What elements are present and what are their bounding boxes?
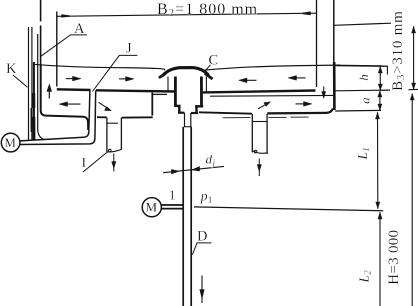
B3/H boundary tick bbox=[409, 88, 418, 90]
B2 right arrow (inward pointing left) bbox=[303, 12, 311, 14]
riser pipe left wall bbox=[20, 90, 90, 140]
wall smudge bbox=[32, 93, 35, 108]
J underline and leader bbox=[93, 55, 138, 91]
down arrow in pipe bottom bbox=[200, 276, 205, 304]
B3 dimension line bbox=[413, 26, 415, 89]
svg-text:M: M bbox=[4, 135, 16, 150]
tank outer left wall bbox=[33, 62, 35, 140]
flow arrow left far right channel bbox=[288, 76, 306, 81]
svg-text:1: 1 bbox=[208, 196, 213, 206]
joint tick bbox=[184, 126, 191, 128]
water surface right bbox=[203, 65, 340, 70]
svg-text:D: D bbox=[197, 229, 207, 245]
right stub open end bbox=[252, 151, 267, 154]
riser pipe right wall bbox=[20, 90, 96, 144]
left stub pipe right wall bbox=[120, 118, 122, 150]
lower water line right bbox=[210, 94, 333, 97]
flow arrow left right-of-dome bbox=[239, 78, 257, 83]
flow arrow right upper-left vessel bbox=[66, 76, 81, 81]
standpipe K right wall bbox=[31, 27, 33, 140]
svg-text:d: d bbox=[206, 152, 213, 167]
B2 right extension line bbox=[316, 0, 318, 87]
measuring nipple to pump M2 upper bbox=[161, 204, 183, 206]
left stub end curl bbox=[109, 149, 112, 152]
svg-text:K: K bbox=[6, 61, 17, 77]
h arrows bbox=[378, 67, 382, 73]
wall smudge lower bbox=[33, 117, 36, 140]
dome right tip flick bbox=[205, 73, 213, 79]
drain cup right wall bbox=[200, 77, 203, 107]
B2 left arrow (inward pointing right) bbox=[62, 15, 70, 17]
B3 top reference line bbox=[335, 23, 392, 25]
pipe A right wall lower part bbox=[40, 25, 42, 64]
down arrow at channel end bbox=[322, 87, 326, 99]
lower channel bottom left bbox=[97, 116, 107, 118]
L1 arrows bbox=[375, 113, 379, 120]
neck left wall bbox=[178, 106, 180, 113]
a arrows bbox=[378, 91, 382, 97]
measuring nipple lower bbox=[161, 208, 183, 210]
svg-text:L1: L1 bbox=[355, 147, 372, 160]
standpipe K left wall bbox=[28, 27, 30, 140]
tailpipe right bbox=[190, 113, 192, 127]
drain cup left wall bbox=[174, 77, 177, 107]
dome skirt right line bbox=[205, 77, 207, 92]
A underline and leader bbox=[41, 35, 87, 56]
dome skirt left line bbox=[167, 77, 169, 91]
svg-text:L2: L2 bbox=[356, 270, 373, 284]
vessel bottom right corner down to riser bbox=[84, 117, 89, 130]
thin under-line right part bbox=[269, 116, 310, 118]
pump M circle bbox=[1, 133, 20, 152]
bottom between stub and partition bbox=[122, 116, 153, 118]
I leader bbox=[83, 152, 107, 172]
D underline and leader bbox=[192, 243, 211, 255]
H top arrow bbox=[410, 94, 414, 100]
a dimension line bbox=[379, 91, 381, 111]
flow arrow left in vessel lower bbox=[59, 102, 81, 107]
K pipe right smudge bbox=[30, 108, 32, 132]
dome C bbox=[162, 68, 208, 76]
d_j right arrow bbox=[192, 167, 200, 171]
pressure line p1 bbox=[194, 207, 383, 211]
tank right wall bbox=[333, 62, 336, 110]
dome left tip flick bbox=[159, 73, 166, 78]
pipe A left wall bbox=[38, 34, 45, 140]
left stub socket tick bbox=[107, 122, 118, 124]
bench bottom line right of wall bbox=[335, 109, 381, 112]
K leader bbox=[13, 75, 28, 87]
arrow below right stub bbox=[257, 159, 261, 177]
pedestal line bbox=[153, 93, 167, 95]
shelf right of drain bbox=[203, 91, 316, 93]
right stub end curl bbox=[254, 150, 257, 153]
svg-text:a: a bbox=[357, 97, 372, 104]
d_j dimension line bbox=[163, 166, 224, 172]
svg-text:H=3 000: H=3 000 bbox=[386, 230, 402, 285]
cup step left bbox=[174, 105, 181, 107]
neck right wall bbox=[195, 106, 197, 113]
cup step right bbox=[195, 105, 203, 107]
diagonal arrow up-right lower channel bbox=[258, 102, 271, 109]
shelf inside left vessel bbox=[57, 88, 91, 91]
h dimension line bbox=[379, 66, 381, 90]
B2 dimension left extension line bbox=[56, 12, 58, 87]
pump M2 circle bbox=[142, 198, 161, 217]
L2 dimension line bbox=[379, 212, 381, 306]
arrow below left stub bbox=[112, 154, 116, 172]
tailpipe left bbox=[184, 113, 186, 127]
d_j left arrow bbox=[172, 170, 180, 174]
B2 dimension line bbox=[57, 13, 316, 16]
svg-text:J: J bbox=[126, 40, 132, 56]
C leader bbox=[205, 65, 211, 72]
neck bottom left bbox=[178, 112, 185, 114]
rim end tick bbox=[386, 66, 388, 75]
svg-text:1: 1 bbox=[169, 189, 176, 204]
svg-text:M: M bbox=[146, 200, 158, 215]
drain pipe D right wall bbox=[190, 127, 192, 306]
drain pipe D left wall bbox=[182, 127, 184, 306]
flow arrow right mid-left channel bbox=[119, 77, 134, 82]
H dimension line bbox=[411, 94, 413, 306]
svg-text:j: j bbox=[212, 158, 216, 168]
left stub open end bbox=[107, 149, 122, 152]
flow arrow right lower channel bbox=[296, 102, 313, 107]
neck bottom right bbox=[191, 112, 198, 114]
shelf thin right portion bbox=[335, 89, 390, 92]
svg-text:h: h bbox=[356, 74, 371, 81]
right stub pipe left wall bbox=[251, 114, 253, 152]
flow arrow up in vessel bbox=[47, 84, 52, 99]
pipe A right wall bbox=[40, 0, 42, 21]
L2 top arrow bbox=[378, 212, 382, 219]
svg-text:B2=1 800 mm: B2=1 800 mm bbox=[157, 1, 258, 19]
right stub pipe right wall bbox=[266, 114, 268, 154]
top frame vertical at right bbox=[333, 0, 335, 62]
B3 arrows bbox=[412, 26, 416, 33]
lower channel bottom right bbox=[199, 112, 252, 113]
lower channel partition bbox=[151, 93, 153, 116]
svg-text:B3>310 mm: B3>310 mm bbox=[390, 10, 407, 91]
water surface left bbox=[34, 64, 165, 70]
bottom right of stub2 to wall foot bbox=[267, 109, 333, 114]
diagonal arrow toward left stub bbox=[99, 102, 112, 111]
svg-text:p: p bbox=[200, 188, 208, 203]
right stub socket tick bbox=[253, 121, 267, 123]
svg-text:I: I bbox=[82, 156, 87, 171]
shelf left-center segment bbox=[96, 90, 176, 91]
L1 dimension line bbox=[377, 112, 379, 209]
left stub pipe left wall bbox=[106, 117, 108, 152]
tank rim right of wall bbox=[335, 64, 388, 67]
thin under-line right bbox=[223, 117, 251, 119]
tank inner left wall + inner bottom bbox=[41, 64, 84, 116]
